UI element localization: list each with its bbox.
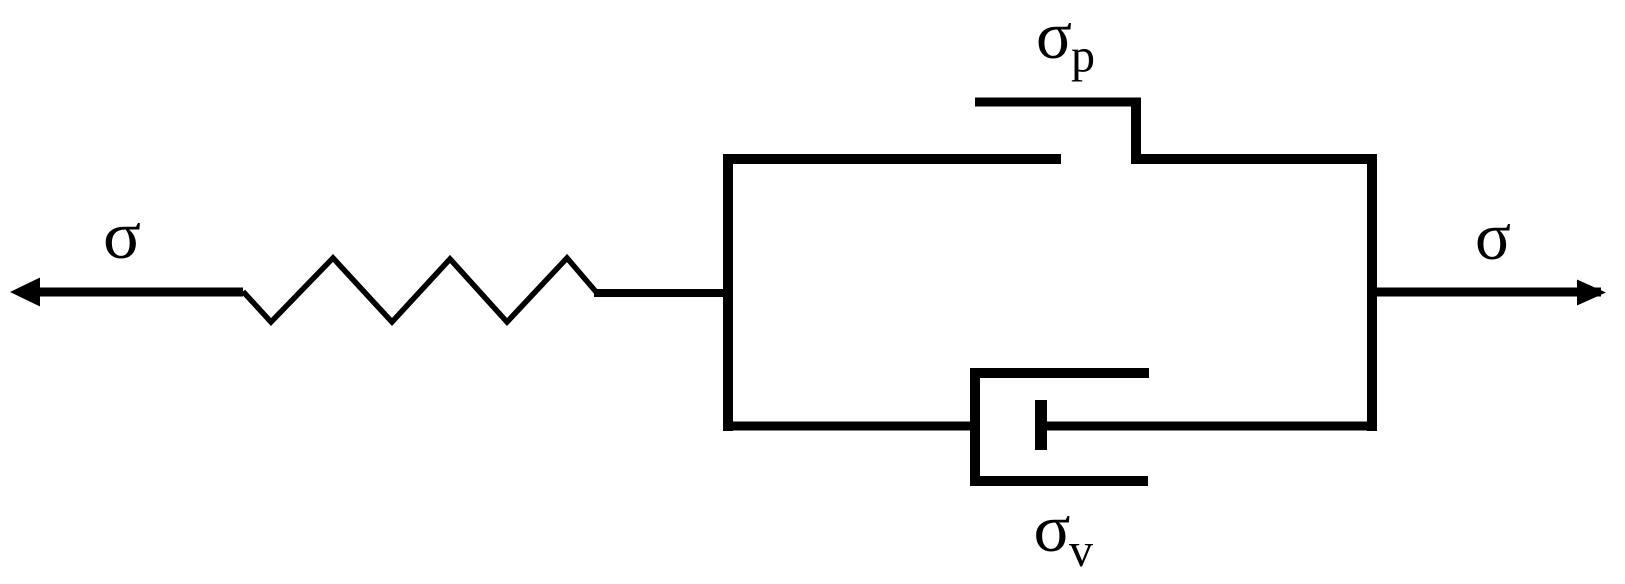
- left stress arrow: [10, 278, 243, 307]
- svg-text:σ: σ: [103, 197, 141, 273]
- wire: box bottom edge left section (rod to dashpot): [723, 422, 975, 431]
- dashpot piston: [1035, 400, 1047, 450]
- svg-text:v: v: [1069, 524, 1093, 577]
- friction slider top plate: [975, 98, 1141, 107]
- wire spring to box: [594, 289, 733, 297]
- label sigma_v: [1034, 490, 1094, 577]
- wire: box top edge right section: [1131, 154, 1377, 164]
- svg-text:σ: σ: [1475, 198, 1511, 274]
- wire: box bottom edge right section (piston rod): [1041, 422, 1377, 431]
- dashpot cylinder: [975, 373, 1149, 481]
- label sigma_p: [1036, 0, 1095, 83]
- right stress arrow: [1377, 280, 1606, 306]
- spring (elastic element): [243, 258, 597, 322]
- wire: box top edge left section (friction slider lower plate): [723, 154, 1061, 164]
- svg-text:p: p: [1071, 30, 1095, 83]
- svg-text:σ: σ: [1034, 490, 1071, 566]
- node: box right edge: [1367, 154, 1377, 431]
- friction slider connector: [1131, 98, 1141, 164]
- svg-text:σ: σ: [1036, 0, 1072, 73]
- node: box left edge: [723, 154, 733, 431]
